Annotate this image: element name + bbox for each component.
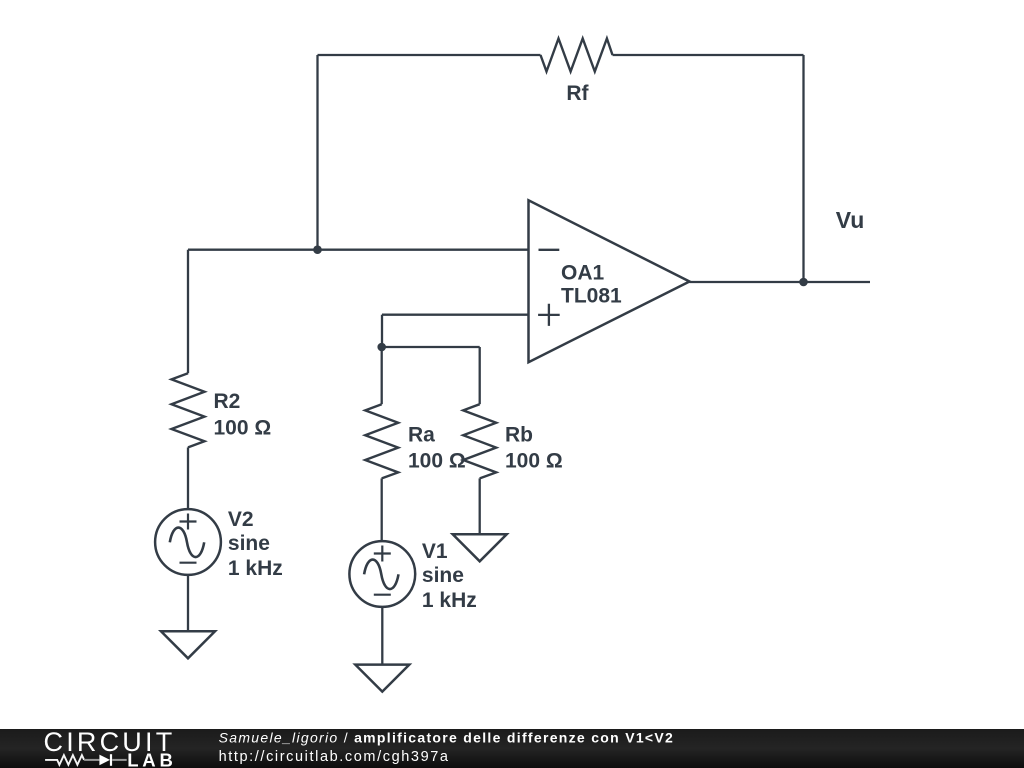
svg-text:100 Ω: 100 Ω	[505, 450, 563, 473]
label Rf	[566, 82, 589, 105]
label TL081	[561, 285, 622, 308]
svg-text:R2: R2	[214, 390, 241, 413]
CircuitLab logo LAB text	[127, 750, 176, 768]
svg-text:Samuele_ligorio / amplificator: Samuele_ligorio / amplificatore delle di…	[219, 730, 675, 746]
svg-text:Rf: Rf	[566, 82, 589, 105]
label Ra	[408, 424, 435, 447]
label R2 value 100 ohm	[214, 416, 272, 439]
resistor Ra	[365, 404, 398, 478]
label V2 sine	[228, 532, 270, 555]
wire: feedback left vertical	[316, 55, 318, 250]
svg-text:V1: V1	[422, 540, 448, 563]
svg-text:LAB: LAB	[127, 750, 176, 768]
svg-text:sine: sine	[422, 564, 464, 587]
V2 plus sign	[180, 514, 197, 530]
footer url line	[219, 749, 450, 765]
voltage source V1 circle	[349, 541, 415, 607]
wire: R2 branch vertical from inverting input	[187, 250, 189, 374]
op-amp OA1 triangle	[529, 200, 690, 362]
CircuitLab logo resistor-diode symbol	[45, 754, 127, 766]
V2 minus sign	[180, 562, 197, 564]
wire: feedback top left horizontal	[318, 54, 541, 56]
wire: feedback right vertical	[802, 55, 804, 282]
svg-text:http://circuitlab.com/cgh397a: http://circuitlab.com/cgh397a	[219, 749, 450, 765]
wire: Rb to ground	[479, 478, 481, 534]
node junction dot at inverting input	[313, 245, 322, 254]
footer bar	[0, 729, 1024, 768]
svg-text:1 kHz: 1 kHz	[228, 557, 283, 580]
label Rb	[505, 424, 533, 447]
label Rb value 100 ohm	[505, 450, 563, 473]
op-amp inverting input minus symbol	[539, 249, 560, 251]
svg-text:TL081: TL081	[561, 285, 622, 308]
ground below V2	[161, 631, 215, 658]
wire: non-inverting input vertical drop	[381, 315, 383, 347]
svg-text:Ra: Ra	[408, 424, 435, 447]
op-amp non-inverting input plus symbol	[538, 304, 560, 326]
svg-text:sine: sine	[228, 532, 270, 555]
wire: inverting input horizontal	[188, 249, 529, 251]
wire: non-inverting input horizontal	[382, 314, 529, 316]
V1 minus sign	[374, 594, 391, 596]
V2 sine squiggle	[170, 528, 204, 558]
label V1 sine	[422, 564, 464, 587]
svg-text:100 Ω: 100 Ω	[408, 450, 466, 473]
label Vu	[836, 207, 865, 233]
svg-text:Rb: Rb	[505, 424, 533, 447]
svg-text:V2: V2	[228, 508, 254, 531]
ground below Rb	[453, 534, 507, 561]
label V1 1 kHz	[422, 589, 477, 612]
svg-text:1 kHz: 1 kHz	[422, 589, 477, 612]
wire: feedback top right horizontal	[613, 54, 804, 56]
label V2 1 kHz	[228, 557, 283, 580]
label V2	[228, 508, 254, 531]
label OA1	[561, 262, 605, 285]
wire: op-amp output	[690, 281, 871, 283]
V1 sine squiggle	[364, 560, 398, 590]
node junction dot at Ra/Rb split	[377, 343, 386, 352]
wire: R2 to V2	[187, 447, 189, 509]
svg-text:OA1: OA1	[561, 262, 605, 285]
voltage source V2 circle	[155, 509, 221, 575]
wire: Ra to V1	[381, 478, 383, 541]
resistor Rb	[463, 404, 496, 478]
wire: V2 to ground	[187, 575, 189, 631]
label R2	[214, 390, 241, 413]
CircuitLab logo CIRCUIT text	[44, 727, 176, 757]
svg-text:100 Ω: 100 Ω	[214, 416, 272, 439]
label Ra value 100 ohm	[408, 450, 466, 473]
label V1	[422, 540, 448, 563]
ground below V1	[355, 665, 409, 692]
wire: V1 to ground	[381, 607, 383, 665]
wire: Rb branch vertical	[479, 347, 481, 404]
node junction dot at output	[799, 278, 808, 287]
svg-text:Vu: Vu	[836, 207, 865, 233]
wire: Ra branch vertical	[381, 347, 383, 404]
resistor R2	[172, 373, 205, 447]
resistor Rf	[541, 39, 613, 72]
wire: horizontal between Ra and Rb tops	[382, 346, 480, 348]
V1 plus sign	[374, 546, 391, 562]
footer title line	[219, 730, 675, 746]
